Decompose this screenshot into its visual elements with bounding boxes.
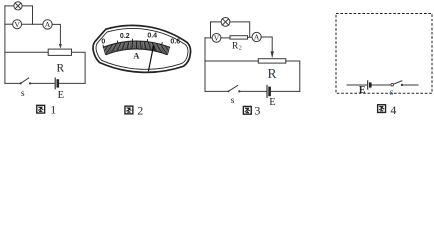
ammeter face inner border line xyxy=(96,28,188,69)
svg-text:4: 4 xyxy=(390,103,396,116)
fig1 wire from A to corner and down to slider arrow xyxy=(52,24,60,44)
fig1 wire battery to right corner xyxy=(59,82,85,84)
svg-text:R: R xyxy=(56,62,64,74)
fig4 wire switch to right xyxy=(403,84,418,86)
svg-text:V: V xyxy=(14,20,20,29)
fig4 wire left segment to battery xyxy=(347,84,367,86)
fig3 wire switch to battery xyxy=(240,90,266,92)
fig3 wire left vertical to rheostat xyxy=(205,60,258,62)
fig3 wire A to corner and down to slider arrow xyxy=(261,37,272,55)
fig3 V row wire from left vertical xyxy=(205,37,212,39)
fig1 voltmeter row wire left segment xyxy=(5,23,13,25)
fig3 left vertical wire xyxy=(204,38,206,92)
caption 图2 glyph xyxy=(125,106,133,114)
switch S (fig4) open contact circle xyxy=(391,83,394,86)
svg-text:s: s xyxy=(231,96,235,106)
switch S (fig1) xyxy=(20,82,22,84)
fig1 wire switch to battery xyxy=(31,82,54,84)
svg-text:0: 0 xyxy=(101,38,105,45)
ammeter face outer case border xyxy=(93,25,191,72)
switch S (fig4) blade xyxy=(394,81,403,85)
fig3 lamp branch top wire xyxy=(211,21,222,23)
svg-text:s: s xyxy=(390,88,394,98)
svg-text:1: 1 xyxy=(50,102,56,116)
lamp (fig1) xyxy=(14,2,22,10)
fig1 wire lamp to corner, down to ammeter row xyxy=(22,6,32,24)
fig3 wire rheostat right to right vertical xyxy=(286,61,300,91)
voltmeter V (fig1) xyxy=(13,20,22,29)
ammeter A (fig1) xyxy=(43,20,52,29)
rheostat R (fig1) body xyxy=(48,49,71,55)
battery E (fig3) xyxy=(266,85,268,97)
fig3 bottom wire left to switch xyxy=(205,90,228,92)
battery E (fig1) xyxy=(54,78,56,89)
fig3 lamp branch left riser xyxy=(210,22,212,38)
lamp (fig3) xyxy=(221,18,230,27)
ammeter scale arc band xyxy=(103,41,170,47)
fig3 lamp top wire right + right riser xyxy=(230,22,250,37)
svg-text:3: 3 xyxy=(254,104,260,116)
fig1 wire rheostat to right vertical down to bottom xyxy=(72,52,86,83)
svg-text:0.6: 0.6 xyxy=(170,39,180,46)
ammeter A (fig3) xyxy=(252,32,261,41)
voltmeter V (fig3) xyxy=(212,34,221,43)
svg-text:V: V xyxy=(214,34,220,43)
svg-text:E: E xyxy=(359,85,366,96)
svg-text:E: E xyxy=(269,97,275,108)
switch S (fig3) xyxy=(227,90,229,92)
svg-text:E: E xyxy=(58,90,64,101)
switch S (fig4) right contact dot xyxy=(401,84,403,86)
svg-text:s: s xyxy=(21,89,25,99)
caption 图1 glyph xyxy=(37,105,45,113)
caption 图4 glyph xyxy=(378,105,386,113)
fig3 wire battery to right corner xyxy=(271,90,300,92)
ammeter scale tick marks xyxy=(103,39,169,55)
fig1 bottom wire left segment to switch xyxy=(5,82,20,84)
svg-text:A: A xyxy=(133,51,140,61)
fig4 wire battery to switch xyxy=(372,84,391,86)
battery E (fig4) xyxy=(367,80,369,89)
resistor R2 (fig3) body xyxy=(230,36,248,39)
fig1 top wire to lamp xyxy=(5,5,14,7)
fig1 wire between V and A xyxy=(22,23,43,25)
svg-text:0.2: 0.2 xyxy=(120,33,130,40)
svg-text:2: 2 xyxy=(137,103,143,116)
svg-text:R: R xyxy=(267,66,276,81)
fig1 slider arrow head xyxy=(59,44,62,49)
caption 图3 glyph xyxy=(243,106,251,114)
svg-text:A: A xyxy=(45,20,51,29)
fig4 dashed box xyxy=(336,14,432,94)
fig3 slider arrow head xyxy=(271,51,274,58)
rheostat R (fig3) body xyxy=(258,59,286,63)
fig3 wire V to R2 xyxy=(221,37,230,39)
fig1 left vertical wire xyxy=(4,6,6,84)
ammeter needle xyxy=(148,46,153,71)
fig3 wire R2 to A xyxy=(248,36,253,38)
fig1 wire left-vertical to rheostat xyxy=(5,51,48,53)
svg-text:A: A xyxy=(254,33,260,42)
svg-text:0.4: 0.4 xyxy=(147,33,157,40)
svg-text:2: 2 xyxy=(239,44,242,51)
